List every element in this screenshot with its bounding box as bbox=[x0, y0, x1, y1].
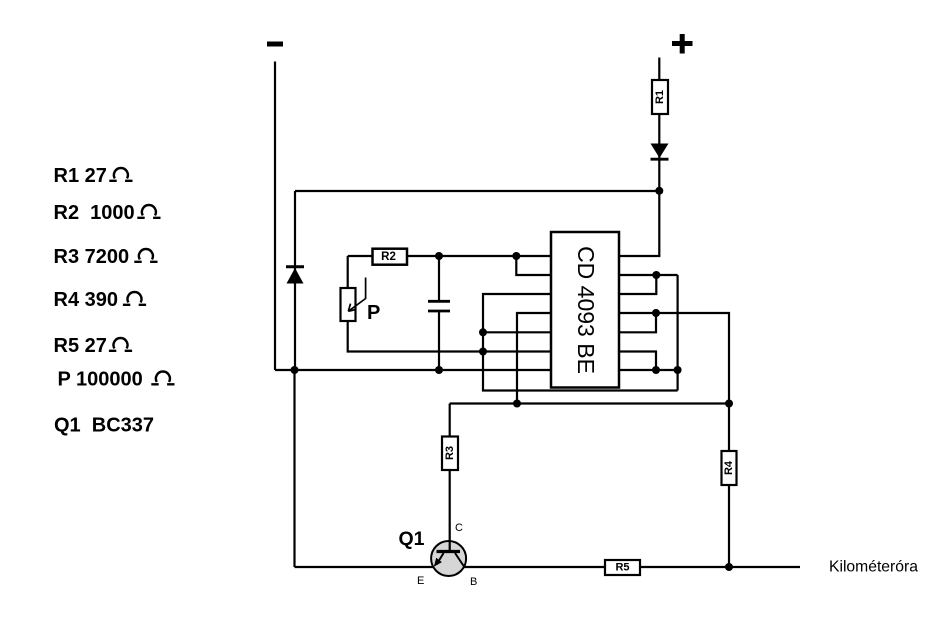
node: junction pin L4 vertical / output line bbox=[513, 400, 521, 408]
wire: right vertical feedback bbox=[676, 275, 678, 391]
resistor R3 bbox=[442, 437, 458, 471]
node: junction right vertical / pin R7 line bbox=[674, 366, 682, 374]
node: junction pin R4 / stub R5 bbox=[652, 309, 660, 317]
wire: pin L3 loop under chip to right vertical bbox=[483, 294, 678, 391]
svg-text:R5: R5 bbox=[615, 562, 629, 574]
node: junction pin R6 / pin R7 bbox=[652, 366, 660, 374]
resistor R1 bbox=[652, 80, 668, 114]
node: junction pin R2 / stub R3 bbox=[652, 271, 660, 279]
wire: pin R6 down bbox=[619, 352, 656, 371]
node: junction R2 line / pin L2 stub bbox=[512, 252, 520, 260]
wire: P bottom to pin L6 bbox=[348, 321, 551, 352]
svg-text:C: C bbox=[455, 522, 463, 534]
svg-text:Kilométeróra: Kilométeróra bbox=[829, 559, 918, 576]
wire: top rail bbox=[295, 190, 659, 192]
node: junction minus rail / left vertical bbox=[291, 366, 299, 374]
wire: minus rail to chip pin L7 bbox=[275, 369, 551, 371]
resistor R4 bbox=[722, 451, 737, 485]
wire: plus vertical through R1 down to chip bbox=[619, 58, 659, 257]
svg-text:R3: R3 bbox=[444, 446, 456, 460]
svg-text:P: P bbox=[367, 302, 380, 324]
svg-text:Q1 BC337: Q1 BC337 bbox=[54, 415, 154, 437]
wire: stub to pin R5 bbox=[619, 313, 656, 332]
wire: bottom-left vertical bbox=[293, 370, 295, 567]
wire: pin L4 down to output node bbox=[517, 313, 551, 404]
component list text bbox=[54, 165, 175, 437]
wire: stub to pin L5 bbox=[483, 331, 551, 333]
svg-text:R4: R4 bbox=[723, 460, 735, 475]
svg-text:R2: R2 bbox=[381, 251, 396, 263]
svg-text:R5 27: R5 27 bbox=[54, 335, 107, 357]
svg-text:R1: R1 bbox=[654, 90, 666, 104]
wire: left branch vertical with diode bbox=[294, 191, 296, 370]
wire: minus vertical bbox=[274, 62, 276, 371]
transistor Q1 bbox=[431, 541, 466, 576]
node: junction left vertical / pin L5 bbox=[479, 328, 487, 336]
svg-text:CD 4093 BE: CD 4093 BE bbox=[573, 246, 599, 374]
node: junction top rail / plus branch bbox=[655, 187, 663, 195]
resistor R5 bbox=[605, 560, 640, 575]
node: cap top junction bbox=[435, 252, 443, 260]
wire: output node line bbox=[450, 402, 729, 404]
wire: stub to pin L2 bbox=[516, 256, 551, 275]
svg-text:B: B bbox=[470, 576, 477, 588]
wire: pin R4 line to R4 resistor bbox=[619, 313, 729, 567]
wire: bottom rail bbox=[295, 566, 801, 568]
node: cap bottom junction bbox=[435, 366, 443, 374]
wire: pin R7 bbox=[619, 369, 678, 371]
potentiometer P bbox=[341, 278, 381, 325]
resistor R2 bbox=[373, 249, 408, 265]
minus terminal bbox=[267, 42, 283, 47]
svg-text:Q1: Q1 bbox=[399, 528, 425, 550]
wire: branch down to potentiometer bbox=[347, 256, 349, 288]
wire: pin R2 to right vertical bbox=[619, 274, 678, 276]
chip U1 CD4093 bbox=[551, 232, 619, 388]
node: junction output line / R4 bbox=[725, 400, 733, 408]
diode D2 LED (pointing down) bbox=[651, 144, 669, 160]
svg-text:E: E bbox=[417, 575, 424, 587]
capacitor C1 bbox=[428, 256, 450, 370]
plus terminal bbox=[672, 34, 693, 54]
wire: R2 node line to pin L1 bbox=[348, 255, 551, 257]
svg-text:R3 7200: R3 7200 bbox=[54, 246, 130, 268]
svg-text:R1 27: R1 27 bbox=[54, 165, 107, 187]
diode D1 (left, pointing up) bbox=[286, 267, 304, 284]
wire: R3 vertical bbox=[449, 404, 451, 552]
node: junction left vertical / P line bbox=[479, 348, 487, 356]
wire: stub to pin R3 bbox=[619, 275, 656, 294]
svg-text:R4 390: R4 390 bbox=[54, 289, 119, 311]
node: junction R4 / bottom rail bbox=[725, 563, 733, 571]
svg-text:P 100000: P 100000 bbox=[58, 369, 143, 391]
svg-text:R2 1000: R2 1000 bbox=[54, 202, 135, 224]
